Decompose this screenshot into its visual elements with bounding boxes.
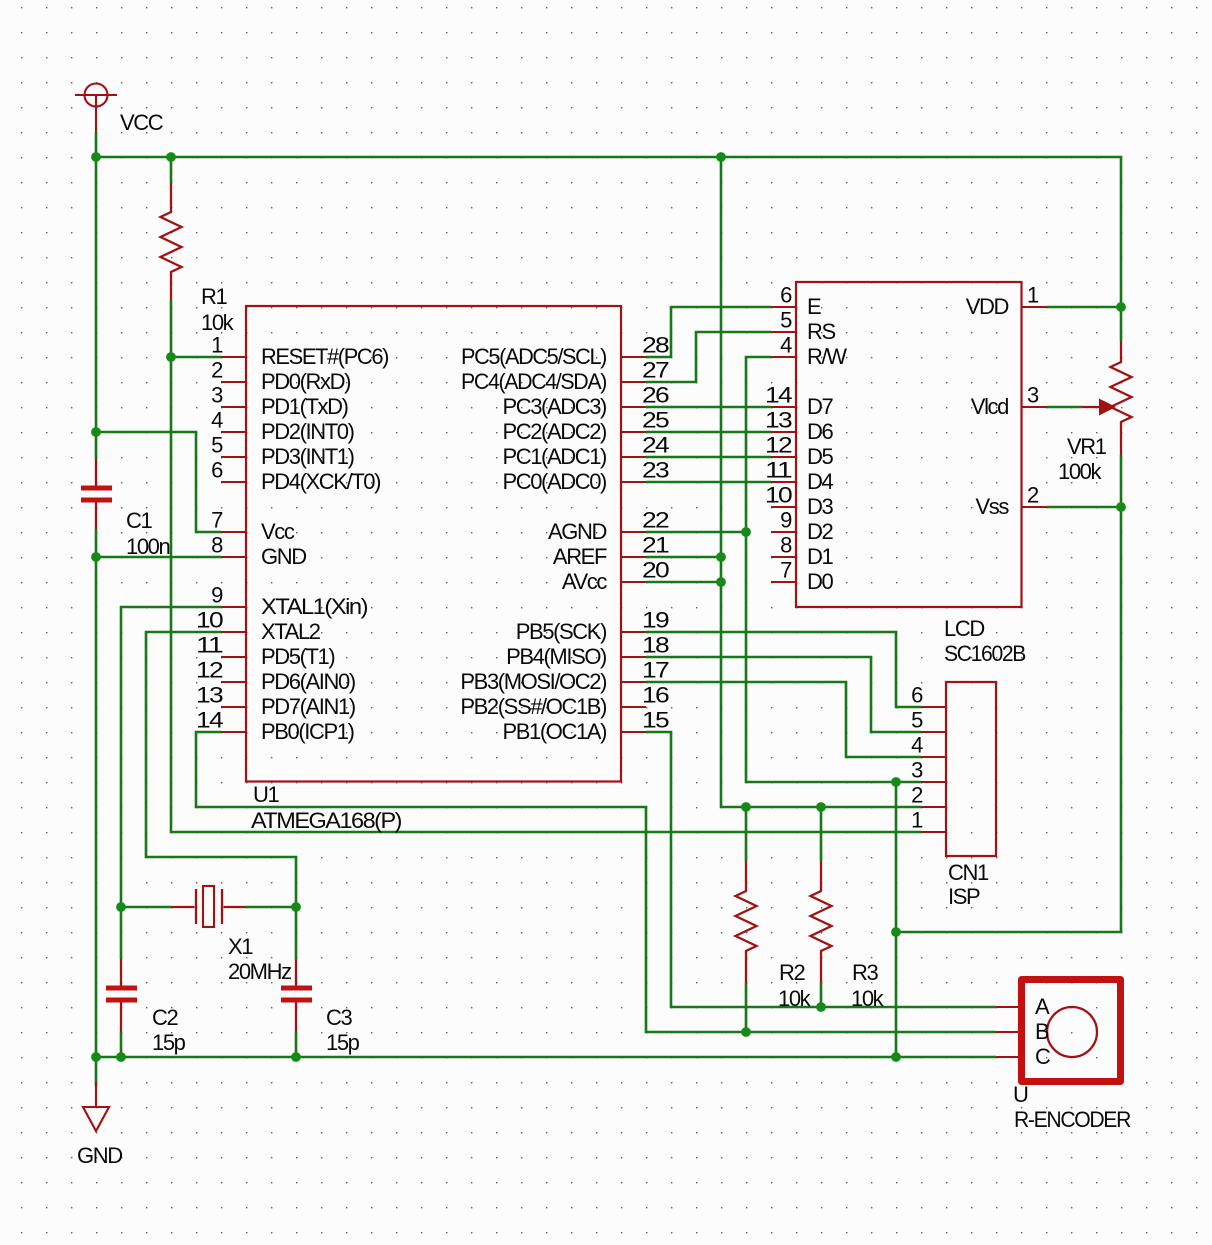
junction at (746,807) xyxy=(741,802,751,812)
junction at (721,557) xyxy=(716,552,726,562)
svg-text:PD5(T1): PD5(T1) xyxy=(261,644,334,669)
U1 pin 9 stub xyxy=(221,606,246,608)
wire net D5: U1 pin 24 to LCD D5 xyxy=(646,456,771,459)
svg-text:23: 23 xyxy=(642,458,669,483)
wire net VCC: LCD VDD pin 1 to x=1121 xyxy=(1047,306,1121,309)
resistor R2 xyxy=(736,862,757,983)
svg-text:13: 13 xyxy=(196,683,223,708)
svg-text:PC0(ADC0): PC0(ADC0) xyxy=(502,469,606,494)
LCD pin 13 stub xyxy=(771,431,796,433)
svg-text:U: U xyxy=(1013,1082,1028,1107)
svg-text:D6: D6 xyxy=(807,419,833,444)
svg-text:20: 20 xyxy=(642,558,669,583)
svg-text:28: 28 xyxy=(642,333,669,358)
U1 pin 3 stub xyxy=(221,406,246,408)
U1 pin 11 stub xyxy=(221,656,246,658)
U1 pin 22 stub xyxy=(621,531,646,533)
svg-text:14: 14 xyxy=(765,383,792,408)
junction at (721,157) xyxy=(716,152,726,162)
svg-text:PD1(TxD): PD1(TxD) xyxy=(261,394,348,419)
svg-text:ISP: ISP xyxy=(948,884,980,909)
LCD pin 4 stub xyxy=(771,356,796,358)
svg-text:7: 7 xyxy=(780,558,792,583)
junction at (96,157) xyxy=(91,152,101,162)
wire net MOSI: U1 pin 17 to CN1 pin 4 xyxy=(646,682,921,757)
svg-text:U1: U1 xyxy=(253,782,279,807)
junction at (821,807) xyxy=(816,802,826,812)
junction at (896,1057) xyxy=(891,1052,901,1062)
LCD pin 6 stub xyxy=(771,306,796,308)
svg-text:2: 2 xyxy=(211,358,223,383)
wire net RESET: R1 bottom to U1 pin 1 and CN1 pin 1 xyxy=(171,300,921,832)
svg-text:GND: GND xyxy=(261,544,306,569)
svg-text:12: 12 xyxy=(765,433,792,458)
CN1 pin 4 stub xyxy=(921,756,946,758)
junction at (746,532) xyxy=(741,527,751,537)
CN1 pin 1 stub xyxy=(921,831,946,833)
svg-text:A: A xyxy=(1035,994,1050,1019)
capacitor C1 xyxy=(81,459,112,529)
U1 pin 28 stub xyxy=(621,356,646,358)
U1 pin 14 stub xyxy=(221,731,246,733)
junction at (896,932) xyxy=(891,927,901,937)
svg-text:25: 25 xyxy=(642,408,669,433)
svg-text:D0: D0 xyxy=(807,569,833,594)
CN1 pin 6 stub xyxy=(921,706,946,708)
svg-text:5: 5 xyxy=(911,708,923,733)
svg-text:XTAL1(Xin): XTAL1(Xin) xyxy=(261,594,367,619)
svg-text:12: 12 xyxy=(196,658,223,683)
svg-text:PB5(SCK): PB5(SCK) xyxy=(516,619,606,644)
wire net PB1: U1 pin 15 to encoder A xyxy=(646,732,996,1007)
U1 pin 1 stub xyxy=(221,356,246,358)
svg-text:PB2(SS#/OC1B): PB2(SS#/OC1B) xyxy=(460,694,606,719)
LCD pin 3 stub xyxy=(1022,406,1048,408)
junction at (721,582) xyxy=(716,577,726,587)
svg-text:R/W: R/W xyxy=(807,344,847,369)
CN1 pin 3 stub xyxy=(921,781,946,783)
svg-text:10: 10 xyxy=(196,608,223,633)
wire net GND: to U1 GND pin 8 xyxy=(96,556,221,559)
LCD pin 9 stub xyxy=(771,531,796,533)
U1 pin 23 stub xyxy=(621,481,646,483)
crystal X1 xyxy=(171,886,246,927)
svg-text:100k: 100k xyxy=(1058,459,1103,484)
junction at (1121,507) xyxy=(1116,502,1126,512)
svg-text:8: 8 xyxy=(211,533,223,558)
junction at (896,782) xyxy=(891,777,901,787)
wire net VCC: U1 AREF pin 21 to x=721 xyxy=(646,556,721,559)
svg-text:Vss: Vss xyxy=(976,494,1010,519)
svg-text:VCC: VCC xyxy=(120,110,164,135)
svg-text:D4: D4 xyxy=(807,469,833,494)
svg-text:4: 4 xyxy=(211,408,223,433)
U1 pin 27 stub xyxy=(621,381,646,383)
junction at (296,1057) xyxy=(291,1052,301,1062)
svg-text:21: 21 xyxy=(642,533,669,558)
svg-text:14: 14 xyxy=(196,708,223,733)
svg-text:C1: C1 xyxy=(126,508,152,533)
svg-text:PD0(RxD): PD0(RxD) xyxy=(261,369,350,394)
svg-text:C3: C3 xyxy=(326,1005,352,1030)
svg-text:XTAL2: XTAL2 xyxy=(261,619,321,644)
LCD pin 11 stub xyxy=(771,481,796,483)
svg-text:6: 6 xyxy=(780,283,792,308)
U1 pin 16 stub xyxy=(621,706,646,708)
svg-text:5: 5 xyxy=(780,308,792,333)
wire net GND: VR1 bottom link xyxy=(896,455,1121,932)
svg-text:VR1: VR1 xyxy=(1067,434,1107,459)
resistor R3 xyxy=(811,862,832,983)
svg-text:3: 3 xyxy=(211,383,223,408)
wire net D4: U1 pin 23 to LCD D4 xyxy=(646,481,771,484)
ground symbol GND xyxy=(83,1082,109,1131)
encoder pin B stub xyxy=(996,1031,1018,1033)
U1 pin 8 stub xyxy=(221,556,246,558)
junction at (121,1057) xyxy=(116,1052,126,1062)
potentiometer VR1 xyxy=(1111,341,1132,455)
wire net VCC: drop x=721 to CN1 pin 2 xyxy=(721,157,921,807)
wire net XTAL1: U1 pin 9 to X1 left / C2 xyxy=(121,607,221,959)
U1 pin 13 stub xyxy=(221,706,246,708)
svg-text:24: 24 xyxy=(642,433,669,458)
U1 pin 18 stub xyxy=(621,656,646,658)
wire net VCC: R2 top xyxy=(745,807,748,862)
rotary encoder U body xyxy=(1022,980,1121,1082)
svg-text:D3: D3 xyxy=(807,494,833,519)
LCD pin 14 stub xyxy=(771,406,796,408)
U1 pin 20 stub xyxy=(621,581,646,583)
svg-text:15: 15 xyxy=(642,708,669,733)
wire net VCC: stem below VCC symbol xyxy=(95,132,98,157)
svg-text:PD3(INT1): PD3(INT1) xyxy=(261,444,354,469)
svg-text:10k: 10k xyxy=(778,986,812,1011)
wire net VCC: top rail from left rail to VR1 top xyxy=(96,157,1121,341)
svg-text:26: 26 xyxy=(642,383,669,408)
svg-text:VDD: VDD xyxy=(966,294,1009,319)
VR1 wiper arrow xyxy=(1082,406,1101,408)
svg-text:6: 6 xyxy=(911,683,923,708)
svg-text:R3: R3 xyxy=(852,960,878,985)
junction at (821,1007) xyxy=(816,1002,826,1012)
wire net MISO: U1 pin 18 to CN1 pin 5 xyxy=(646,657,921,732)
svg-text:PC4(ADC4/SDA): PC4(ADC4/SDA) xyxy=(461,369,606,394)
svg-text:15p: 15p xyxy=(326,1030,360,1055)
resistor R1 xyxy=(161,183,182,300)
svg-text:PC2(ADC2): PC2(ADC2) xyxy=(502,419,606,444)
LCD SC1602B body xyxy=(796,282,1022,607)
U1 pin 12 stub xyxy=(221,681,246,683)
wire net VCC: branch to U1 Vcc pin 7 xyxy=(96,432,221,532)
svg-text:PD7(AIN1): PD7(AIN1) xyxy=(261,694,355,719)
svg-text:PB0(ICP1): PB0(ICP1) xyxy=(261,719,354,744)
wire net XTAL2: X1 right pin xyxy=(246,906,296,909)
svg-text:100n: 100n xyxy=(126,534,170,559)
IC U1 ATMEGA168(P) body xyxy=(246,306,621,782)
U1 pin 17 stub xyxy=(621,681,646,683)
U1 pin 7 stub xyxy=(221,531,246,533)
wire net XTAL1: X1 left pin xyxy=(121,906,171,909)
svg-text:19: 19 xyxy=(642,608,669,633)
junction at (121,907) xyxy=(116,902,126,912)
svg-text:SC1602B: SC1602B xyxy=(944,641,1026,666)
svg-text:AGND: AGND xyxy=(548,519,606,544)
U1 pin 15 stub xyxy=(621,731,646,733)
svg-text:9: 9 xyxy=(211,583,223,608)
wire net VLCD: LCD Vlcd pin 3 toward VR1 wiper xyxy=(1047,406,1082,409)
svg-text:PC3(ADC3): PC3(ADC3) xyxy=(502,394,606,419)
wire net ENC-B: R2 bottom xyxy=(745,983,748,1032)
svg-text:D1: D1 xyxy=(807,544,833,569)
LCD pin 1 stub xyxy=(1022,306,1048,308)
encoder pin A stub xyxy=(996,1006,1018,1008)
CN1 pin 2 stub xyxy=(921,806,946,808)
svg-text:PD6(AIN0): PD6(AIN0) xyxy=(261,669,355,694)
svg-text:Vlcd: Vlcd xyxy=(971,394,1008,419)
wire net D6: U1 pin 25 to LCD D6 xyxy=(646,431,771,434)
svg-text:7: 7 xyxy=(211,508,223,533)
svg-text:10k: 10k xyxy=(201,310,235,335)
svg-text:PC1(ADC1): PC1(ADC1) xyxy=(502,444,606,469)
LCD pin 2 stub xyxy=(1022,506,1048,508)
LCD pin 5 stub xyxy=(771,331,796,333)
wire net PB0: U1 pin 14 to encoder B xyxy=(196,732,996,1032)
svg-text:PD2(INT0): PD2(INT0) xyxy=(261,419,354,444)
wire net E: U1 pin 28 to LCD E xyxy=(646,307,771,357)
svg-text:3: 3 xyxy=(911,758,923,783)
svg-text:R2: R2 xyxy=(779,960,805,985)
svg-text:4: 4 xyxy=(911,733,923,758)
junction at (96,1057) xyxy=(91,1052,101,1062)
svg-text:18: 18 xyxy=(642,633,669,658)
U1 pin 4 stub xyxy=(221,431,246,433)
junction at (296,907) xyxy=(291,902,301,912)
U1 pin 26 stub xyxy=(621,406,646,408)
svg-text:13: 13 xyxy=(765,408,792,433)
wire net XTAL2: U1 pin 10 to X1 right / C3 xyxy=(146,632,296,959)
LCD pin 8 stub xyxy=(771,556,796,558)
wire net XTAL2: C3 bottom to GND rail xyxy=(295,1032,298,1057)
svg-text:11: 11 xyxy=(765,458,792,483)
wire net ENC-A: R3 bottom xyxy=(820,983,823,1007)
junction at (171,157) xyxy=(166,152,176,162)
svg-text:R-ENCODER: R-ENCODER xyxy=(1014,1107,1130,1132)
capacitor C2 xyxy=(106,959,137,1032)
svg-text:17: 17 xyxy=(642,658,669,683)
svg-text:AVcc: AVcc xyxy=(562,569,608,594)
U1 pin 19 stub xyxy=(621,631,646,633)
svg-text:PD4(XCK/T0): PD4(XCK/T0) xyxy=(261,469,380,494)
svg-text:5: 5 xyxy=(211,433,223,458)
svg-text:D5: D5 xyxy=(807,444,833,469)
svg-text:1: 1 xyxy=(211,333,223,358)
svg-text:CN1: CN1 xyxy=(948,860,989,885)
svg-text:2: 2 xyxy=(911,783,923,808)
svg-text:RESET#(PC6): RESET#(PC6) xyxy=(261,344,388,369)
svg-text:10k: 10k xyxy=(851,986,885,1011)
svg-text:3: 3 xyxy=(1027,383,1039,408)
LCD pin 10 stub xyxy=(771,506,796,508)
svg-text:LCD: LCD xyxy=(944,616,984,641)
svg-text:PB4(MISO): PB4(MISO) xyxy=(506,644,606,669)
junction at (96,432) xyxy=(91,427,101,437)
svg-text:E: E xyxy=(807,294,821,319)
svg-text:4: 4 xyxy=(780,333,792,358)
wire net GND: left rail below C1 to GND symbol xyxy=(95,529,98,1086)
svg-text:PC5(ADC5/SCL): PC5(ADC5/SCL) xyxy=(461,344,606,369)
encoder shaft circle xyxy=(1047,1007,1097,1057)
svg-text:8: 8 xyxy=(780,533,792,558)
wire net GND: bottom rail to encoder C xyxy=(96,1056,996,1059)
svg-text:27: 27 xyxy=(642,358,669,383)
wire net GND: vertical x=896 xyxy=(895,782,898,1057)
svg-text:AREF: AREF xyxy=(553,544,607,569)
wire net RESET: to U1 pin 1 xyxy=(171,356,221,359)
wire net GND: LCD Vss pin 2 xyxy=(1047,506,1121,509)
U1 pin 2 stub xyxy=(221,381,246,383)
svg-text:C: C xyxy=(1035,1044,1051,1069)
svg-text:ATMEGA168(P): ATMEGA168(P) xyxy=(251,808,401,833)
LCD pin 12 stub xyxy=(771,456,796,458)
wire net RS: U1 pin 27 to LCD RS xyxy=(646,332,771,382)
junction at (746,1032) xyxy=(741,1027,751,1037)
connector CN1 ISP body xyxy=(946,682,996,856)
wire net VCC: left rail down to C1 xyxy=(95,157,98,459)
svg-text:PB1(OC1A): PB1(OC1A) xyxy=(502,719,606,744)
U1 pin 6 stub xyxy=(221,481,246,483)
svg-text:6: 6 xyxy=(211,458,223,483)
U1 pin 5 stub xyxy=(221,456,246,458)
svg-text:C2: C2 xyxy=(152,1005,178,1030)
svg-text:15p: 15p xyxy=(152,1030,186,1055)
wire net GND: LCD R/W down x=746 to CN1 pin 3 xyxy=(746,357,921,782)
svg-text:2: 2 xyxy=(1027,483,1039,508)
svg-text:16: 16 xyxy=(642,683,669,708)
svg-text:B: B xyxy=(1035,1019,1049,1044)
U1 pin 10 stub xyxy=(221,631,246,633)
wire net VCC: U1 AVcc pin 20 to x=721 xyxy=(646,581,721,584)
CN1 pin 5 stub xyxy=(921,731,946,733)
svg-text:D7: D7 xyxy=(807,394,833,419)
U1 pin 25 stub xyxy=(621,431,646,433)
svg-text:1: 1 xyxy=(1027,283,1039,308)
svg-text:PB3(MOSI/OC2): PB3(MOSI/OC2) xyxy=(460,669,606,694)
svg-text:X1: X1 xyxy=(228,934,253,959)
junction at (171,357) xyxy=(166,352,176,362)
wire net XTAL1: C2 bottom to GND rail xyxy=(120,1032,123,1057)
svg-text:R1: R1 xyxy=(201,284,227,309)
svg-text:11: 11 xyxy=(196,633,223,658)
junction at (96,557) xyxy=(91,552,101,562)
capacitor C3 xyxy=(281,959,312,1032)
svg-text:GND: GND xyxy=(77,1143,122,1168)
power symbol VCC xyxy=(75,84,117,133)
svg-text:RS: RS xyxy=(807,319,835,344)
LCD pin 7 stub xyxy=(771,581,796,583)
wire net VCC: R3 top xyxy=(820,807,823,862)
U1 pin 24 stub xyxy=(621,456,646,458)
encoder pin C stub xyxy=(996,1056,1018,1058)
svg-text:Vcc: Vcc xyxy=(261,519,295,544)
svg-text:22: 22 xyxy=(642,508,669,533)
svg-text:10: 10 xyxy=(765,483,792,508)
wire net D7: U1 pin 26 to LCD D7 xyxy=(646,406,771,409)
U1 pin 21 stub xyxy=(621,556,646,558)
wire net SCK: U1 pin 19 to CN1 pin 6 xyxy=(646,632,921,707)
junction at (1121,307) xyxy=(1116,302,1126,312)
svg-text:20MHz: 20MHz xyxy=(228,959,291,984)
svg-text:D2: D2 xyxy=(807,519,833,544)
wire net GND: U1 AGND pin 22 xyxy=(646,531,746,534)
wire net VCC: R1 top xyxy=(170,157,173,183)
svg-text:9: 9 xyxy=(780,508,792,533)
svg-text:1: 1 xyxy=(911,808,923,833)
